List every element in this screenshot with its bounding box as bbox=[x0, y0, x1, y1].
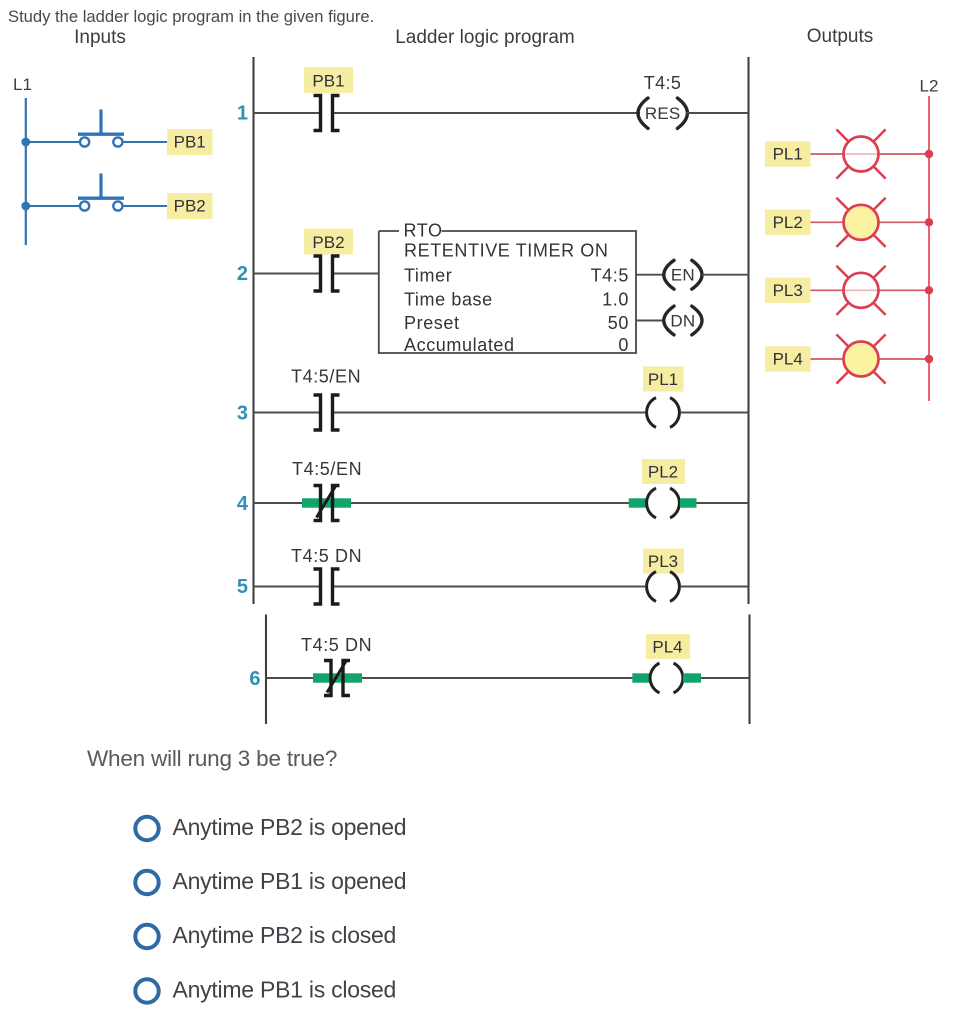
coil PL3 OTE bbox=[647, 572, 680, 602]
wire PL2 label to rail L2 bbox=[811, 221, 930, 223]
svg-text:PB1: PB1 bbox=[174, 133, 206, 152]
label PL3 (rung 5) bbox=[643, 549, 684, 574]
svg-text:PL2: PL2 bbox=[773, 213, 803, 232]
junction dot PL2 on rail L2 bbox=[925, 218, 933, 226]
svg-text:Inputs: Inputs bbox=[74, 27, 126, 48]
wire rung 6 middle bbox=[345, 677, 651, 679]
highlight (true state) on contact rung 4 bbox=[302, 498, 351, 507]
svg-text:PL2: PL2 bbox=[648, 463, 678, 482]
label PB2 (inputs) bbox=[167, 193, 213, 219]
wire pushbutton PB1 to label bbox=[123, 141, 168, 143]
svg-text:Study the ladder logic program: Study the ladder logic program in the gi… bbox=[8, 7, 374, 26]
node junction dot PB1 branch bbox=[21, 138, 30, 147]
svg-text:Anytime PB2 is opened: Anytime PB2 is opened bbox=[173, 814, 407, 840]
wire rung 3 middle bbox=[334, 412, 645, 414]
svg-text:1: 1 bbox=[237, 103, 248, 125]
svg-text:Anytime PB1 is closed: Anytime PB1 is closed bbox=[173, 976, 397, 1002]
svg-text:0: 0 bbox=[618, 335, 629, 355]
wire rung 6 left bbox=[266, 677, 330, 679]
svg-text:EN: EN bbox=[671, 266, 695, 285]
svg-text:PL4: PL4 bbox=[652, 638, 682, 657]
wire PL3 label to rail L2 bbox=[811, 289, 845, 291]
label PL4 (output) bbox=[765, 346, 811, 371]
coil PL4 OTE bbox=[650, 663, 683, 693]
svg-text:Outputs: Outputs bbox=[807, 26, 874, 47]
label PL3 (output) bbox=[765, 278, 811, 303]
junction dot PL4 on rail L2 bbox=[925, 355, 933, 363]
svg-text:Anytime PB1 is opened: Anytime PB1 is opened bbox=[173, 868, 407, 894]
radio option 2 bbox=[135, 871, 158, 894]
svg-text:PL1: PL1 bbox=[773, 145, 803, 164]
power rail L1 bbox=[25, 98, 27, 245]
pilot light PL1 (off) bbox=[836, 129, 885, 178]
svg-text:L2: L2 bbox=[920, 77, 939, 96]
wire rung 6 right bbox=[685, 677, 750, 679]
left power rail (rung 6 segment) bbox=[265, 615, 267, 725]
svg-text:Anytime PB2 is closed: Anytime PB2 is closed bbox=[173, 922, 397, 948]
junction dot PL1 on rail L2 bbox=[925, 150, 933, 158]
label PB1 (rung 1) bbox=[304, 67, 353, 93]
svg-text:Accumulated: Accumulated bbox=[404, 335, 515, 355]
svg-text:5: 5 bbox=[237, 576, 248, 598]
label PL1 (rung 3) bbox=[643, 367, 684, 392]
svg-text:50: 50 bbox=[608, 313, 629, 333]
radio option 1 bbox=[135, 817, 158, 840]
wire rung 4 right bbox=[681, 502, 749, 504]
wire L1 to pushbutton PB1 bbox=[26, 141, 80, 143]
wire timer box to EN coil bbox=[636, 274, 664, 276]
svg-text:Time base: Time base bbox=[404, 290, 493, 310]
label PB1 (inputs) bbox=[167, 129, 213, 155]
contact T4:5/EN XIO (rung 4, normally closed) bbox=[314, 485, 340, 521]
highlight (true state) right of coil PL4 bbox=[683, 673, 701, 682]
node junction dot PB2 branch bbox=[21, 202, 30, 211]
svg-text:RES: RES bbox=[645, 104, 681, 123]
label PL1 (output) bbox=[765, 141, 811, 166]
wire rung 2 left bbox=[254, 273, 320, 275]
label PL4 (rung 6) bbox=[646, 634, 690, 659]
coil DN (timer done output) bbox=[664, 306, 702, 335]
svg-text:6: 6 bbox=[249, 668, 260, 690]
svg-text:PB1: PB1 bbox=[312, 72, 344, 91]
svg-text:DN: DN bbox=[670, 311, 695, 330]
wire rung 3 right bbox=[681, 412, 749, 414]
svg-text:RTO: RTO bbox=[404, 221, 443, 241]
svg-text:T4:5: T4:5 bbox=[591, 266, 629, 286]
right power rail (rung 6 segment) bbox=[748, 615, 750, 725]
pilot light PL4 (on) bbox=[836, 334, 885, 383]
wire rung 1 middle bbox=[334, 112, 640, 114]
radio option 4 bbox=[135, 979, 158, 1002]
contact T4:5/EN XIC (rung 3) bbox=[314, 395, 340, 430]
contact PB1 XIC (rung 1) bbox=[314, 96, 340, 131]
wire rung 4 left bbox=[254, 502, 320, 504]
highlight (true state) right of coil PL2 bbox=[680, 498, 697, 507]
svg-text:T4:5 DN: T4:5 DN bbox=[291, 546, 362, 566]
wire PL1 label to rail L2 bbox=[811, 153, 845, 155]
wire rung 1 left bbox=[254, 112, 320, 114]
wire rung 4 middle bbox=[334, 502, 646, 504]
pushbutton PB2 (N.O. momentary) bbox=[78, 174, 124, 211]
wire rung 1 right bbox=[686, 112, 749, 114]
highlight (true state) on contact rung 6 bbox=[313, 673, 362, 682]
timer RTO function block bbox=[379, 231, 636, 353]
coil PL2 OTE bbox=[647, 488, 680, 518]
junction dot PL3 on rail L2 bbox=[925, 286, 933, 294]
svg-text:Preset: Preset bbox=[404, 313, 460, 333]
wire rung 5 right bbox=[681, 586, 749, 588]
svg-text:PL3: PL3 bbox=[648, 552, 678, 571]
wire rung 2 to timer box bbox=[334, 273, 379, 275]
svg-text:RETENTIVE TIMER ON: RETENTIVE TIMER ON bbox=[404, 241, 609, 261]
pilot light PL3 (off) bbox=[836, 266, 885, 315]
wire rung 5 left bbox=[254, 586, 320, 588]
label PL2 (rung 4) bbox=[642, 459, 685, 484]
svg-text:When will rung 3 be true?: When will rung 3 be true? bbox=[87, 746, 337, 771]
wire pushbutton PB2 to label bbox=[123, 205, 168, 207]
svg-text:PB2: PB2 bbox=[312, 233, 344, 252]
contact T4:5 DN XIC (rung 5) bbox=[314, 569, 340, 604]
svg-text:T4:5: T4:5 bbox=[644, 73, 682, 93]
radio option 3 bbox=[135, 925, 158, 948]
label PL2 (output) bbox=[765, 210, 811, 235]
left power rail (ladder) bbox=[252, 57, 254, 604]
wire rung 3 left bbox=[254, 412, 320, 414]
wire timer box to DN coil bbox=[636, 320, 664, 322]
svg-text:T4:5/EN: T4:5/EN bbox=[291, 367, 361, 387]
pilot light PL2 (on) bbox=[836, 198, 885, 247]
svg-text:Timer: Timer bbox=[404, 266, 452, 286]
svg-text:4: 4 bbox=[237, 493, 249, 515]
contact T4:5 DN XIO (rung 6, normally closed) bbox=[324, 660, 350, 696]
highlight (true state) left of coil PL4 bbox=[632, 673, 650, 682]
svg-text:3: 3 bbox=[237, 403, 248, 425]
pushbutton PB1 (N.O. momentary) bbox=[78, 110, 124, 147]
coil EN (timer enable output) bbox=[664, 260, 702, 289]
highlight (true state) left of coil PL2 bbox=[629, 498, 646, 507]
right power rail (ladder) bbox=[747, 57, 749, 604]
svg-text:L1: L1 bbox=[13, 75, 32, 94]
svg-text:T4:5/EN: T4:5/EN bbox=[292, 459, 362, 479]
svg-text:2: 2 bbox=[237, 263, 248, 285]
svg-text:1.0: 1.0 bbox=[602, 290, 629, 310]
wire rung 5 middle bbox=[334, 586, 645, 588]
svg-text:PL3: PL3 bbox=[773, 281, 803, 300]
power rail L2 bbox=[928, 96, 930, 401]
wire EN coil to right rail bbox=[702, 274, 749, 276]
label PB2 (rung 2) bbox=[304, 229, 353, 255]
svg-text:Ladder logic program: Ladder logic program bbox=[395, 27, 575, 48]
coil PL1 OTE bbox=[647, 398, 680, 428]
svg-text:PL1: PL1 bbox=[648, 370, 678, 389]
wire PL4 label to rail L2 bbox=[811, 358, 930, 360]
coil T4:5 RES (reset) bbox=[638, 98, 687, 128]
svg-text:PL4: PL4 bbox=[773, 350, 803, 369]
wire L1 to pushbutton PB2 bbox=[26, 205, 80, 207]
contact PB2 XIC (rung 2) bbox=[314, 256, 340, 291]
svg-text:T4:5 DN: T4:5 DN bbox=[301, 635, 372, 655]
svg-text:PB2: PB2 bbox=[174, 197, 206, 216]
